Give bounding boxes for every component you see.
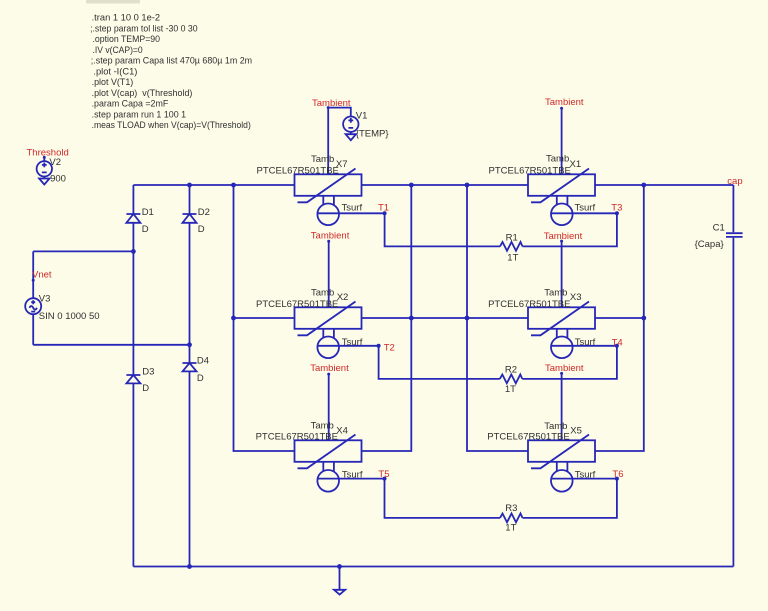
wire middle column x=411.3 down to X4.R: [362, 185, 412, 451]
junction mid column A row2: [409, 316, 414, 321]
net label Tambient (X4 branch): [310, 363, 349, 375]
svg-text:Tamb: Tamb: [546, 154, 569, 165]
wire Tambient to X3 Tamb: [561, 241, 563, 307]
wire Tambient to X1 Tamb: [561, 108, 563, 174]
thermistor X4: [256, 421, 363, 492]
svg-text:Tsurf: Tsurf: [575, 203, 596, 214]
svg-text:Vnet: Vnet: [32, 270, 52, 281]
svg-text:D: D: [198, 224, 205, 235]
svg-text:D: D: [142, 224, 149, 235]
svg-text:X5: X5: [570, 425, 582, 436]
net label Vnet: [32, 270, 52, 282]
svg-text:Tsurf: Tsurf: [575, 469, 596, 480]
svg-text:X3: X3: [570, 292, 582, 303]
wire row2 X2.R to X3.L: [362, 317, 529, 319]
node T4 corner dot: [615, 344, 619, 348]
thermistor X2: [256, 288, 363, 359]
wire net T1 (X7 Tsurf to R1): [317, 213, 500, 246]
svg-text:{Capa}: {Capa}: [695, 239, 724, 250]
junction mid column A top row: [409, 183, 414, 188]
svg-text:C1: C1: [713, 222, 725, 233]
wire left column x=233.5 down to X4.L: [234, 185, 295, 451]
voltage source V3 (sine): [25, 294, 99, 322]
faint cropped text at top edge: [86, 0, 140, 4]
voltage source V2: [37, 157, 66, 185]
svg-text:.plot -I(C1): .plot -I(C1): [93, 66, 137, 77]
diode D3: [126, 367, 154, 395]
wire right column to C1 top: [732, 185, 734, 232]
wire right column x=643.8 down to X5.R: [595, 185, 644, 451]
ground (V2): [39, 177, 49, 185]
svg-text:D2: D2: [198, 207, 210, 218]
wire net T4 (R2 to X3 Tsurf): [522, 346, 617, 379]
svg-text:.plot V(cap) v(Threshold): .plot V(cap) v(Threshold): [92, 88, 193, 99]
wire net T5 (X4 Tsurf to R3): [317, 479, 500, 518]
node T6 corner dot: [615, 477, 619, 481]
wire Vnet top (V3 to D1 column): [33, 250, 133, 252]
wire V3 return to D4 column: [33, 344, 189, 346]
node T3 corner dot: [615, 211, 619, 215]
wire top row left segment (bridge+ to X7.L): [133, 184, 294, 186]
wire D1 to D3: [132, 223, 134, 375]
wire V3 top lead: [32, 251, 34, 298]
svg-text:V1: V1: [356, 111, 368, 122]
wire C1 bottom to bottom row: [732, 238, 734, 567]
svg-text:Tamb: Tamb: [311, 288, 334, 299]
wire Tambient to X5 Tamb: [561, 373, 563, 440]
capacitor C1: [695, 222, 743, 250]
svg-text:Tambient: Tambient: [312, 98, 351, 109]
wire top row mid segment (X7.R to X1.L): [362, 184, 529, 186]
junction X3.R row2: [641, 316, 646, 321]
svg-text:PTCEL67R501TBE: PTCEL67R501TBE: [488, 299, 570, 310]
junction mid column B row2: [465, 316, 470, 321]
svg-text:D1: D1: [142, 207, 154, 218]
svg-text:Tambient: Tambient: [310, 363, 349, 374]
svg-text:900: 900: [50, 173, 66, 184]
svg-text:1T: 1T: [507, 252, 518, 263]
junction mid column B top row: [465, 183, 470, 188]
junction D2 top row: [187, 183, 192, 188]
svg-text:PTCEL67R501TBE: PTCEL67R501TBE: [489, 165, 571, 176]
svg-text:.option TEMP=90: .option TEMP=90: [93, 34, 161, 45]
wire D2 down to V3 return: [189, 223, 191, 363]
net label T6: [612, 469, 623, 480]
svg-text:;.step param Capa list 470µ 68: ;.step param Capa list 470µ 680µ 1m 2m: [91, 56, 252, 67]
svg-text:Tambient: Tambient: [311, 231, 350, 242]
net label Tambient (top right): [545, 97, 584, 110]
svg-text:.IV v(CAP)=0: .IV v(CAP)=0: [93, 45, 143, 56]
net label T1: [378, 203, 389, 215]
svg-text:T2: T2: [384, 342, 395, 353]
svg-text:1T: 1T: [505, 523, 516, 534]
wire net T6 (R3 to X5 Tsurf): [523, 479, 617, 518]
junction bridge+ top row: [231, 183, 236, 188]
svg-text:cap: cap: [727, 176, 742, 187]
spice directives text block: [90, 13, 252, 132]
svg-text:Tsurf: Tsurf: [342, 337, 363, 348]
diode D2: [183, 207, 210, 235]
thermistor X3: [488, 288, 596, 359]
wire D1 column top: [132, 185, 134, 214]
svg-text:PTCEL67R501TBE: PTCEL67R501TBE: [257, 165, 339, 176]
svg-text:X4: X4: [336, 425, 348, 436]
svg-text:X1: X1: [570, 159, 582, 170]
wire Tambient to X4 Tamb: [328, 374, 330, 440]
junction Vnet D1 column: [131, 249, 136, 254]
node T2 corner dot: [377, 344, 381, 348]
svg-text:V3: V3: [39, 294, 51, 305]
net label Tambient (V1): [312, 98, 351, 109]
svg-text:{TEMP}: {TEMP}: [356, 128, 389, 139]
svg-text:Threshold: Threshold: [27, 148, 69, 159]
svg-text:Tamb: Tamb: [311, 421, 334, 432]
junction ground bottom row: [337, 564, 342, 569]
net label T4: [612, 337, 623, 348]
svg-text:Tsurf: Tsurf: [342, 469, 363, 480]
svg-text:Tambient: Tambient: [544, 231, 583, 242]
wire Tambient to X2 Tamb: [328, 241, 330, 307]
voltage source V1: [343, 111, 388, 140]
resistor R1: [500, 233, 523, 264]
svg-text:1T: 1T: [505, 384, 516, 395]
net label Threshold: [27, 148, 69, 159]
svg-text:D3: D3: [142, 367, 154, 378]
svg-text:.plot V(T1): .plot V(T1): [92, 77, 134, 88]
wire bottom row: [133, 566, 733, 568]
svg-text:Tamb: Tamb: [544, 288, 567, 299]
net label Tambient (X2 branch): [311, 231, 350, 243]
wire top row right segment (X1.R to cap corner): [595, 184, 733, 186]
junction X2.L row2: [231, 316, 236, 321]
svg-text:Tamb: Tamb: [311, 154, 334, 165]
net label cap: [727, 176, 742, 187]
resistor R2: [500, 364, 523, 394]
resistor R3: [500, 503, 523, 533]
wire V3 bottom lead: [32, 314, 34, 345]
junction X1.R column top row: [641, 183, 646, 188]
svg-text:.param Capa =2mF: .param Capa =2mF: [92, 99, 169, 110]
wire D4 to bottom row: [189, 371, 191, 566]
svg-text:.step param run 1 100 1: .step param run 1 100 1: [92, 109, 187, 120]
node T1 corner dot: [383, 211, 387, 215]
svg-text:PTCEL67R501TBE: PTCEL67R501TBE: [487, 431, 569, 442]
ground (V1): [346, 132, 356, 140]
net label Tambient (X5 branch): [545, 363, 584, 375]
ground (main): [334, 567, 345, 595]
svg-text:Tambient: Tambient: [545, 97, 584, 108]
svg-text:Tsurf: Tsurf: [575, 337, 596, 348]
svg-text:Tsurf: Tsurf: [342, 203, 363, 214]
wire net T3 (R1 to X1 Tsurf): [523, 213, 617, 246]
svg-text:;.step param tol list -30 0 30: ;.step param tol list -30 0 30: [90, 23, 198, 34]
thermistor X5: [487, 421, 595, 492]
thermistor X7: [257, 154, 363, 225]
wire X2.L stub: [234, 317, 295, 319]
svg-text:D: D: [142, 383, 149, 394]
svg-text:D: D: [197, 373, 204, 384]
wire D3 to bottom row: [132, 383, 134, 566]
svg-text:SIN 0 1000 50: SIN 0 1000 50: [39, 311, 100, 322]
svg-text:.meas TLOAD when V(cap)=V(Thre: .meas TLOAD when V(cap)=V(Threshold): [92, 120, 251, 131]
net label T3: [611, 203, 622, 215]
net label Tambient (X3 branch): [544, 231, 583, 243]
wire middle column x=467 down to X5.L: [467, 185, 528, 451]
wire Tambient V1 corner to X7 Tamb: [328, 108, 351, 175]
node T5 corner dot: [383, 477, 387, 481]
net label T5: [378, 469, 389, 480]
svg-text:D4: D4: [197, 356, 209, 367]
diode D1: [126, 207, 153, 235]
svg-text:R2: R2: [505, 364, 517, 375]
svg-text:X2: X2: [337, 292, 349, 303]
svg-text:Tamb: Tamb: [544, 421, 567, 432]
wire D2 column top: [189, 185, 191, 214]
net label T2: [377, 342, 395, 353]
svg-text:Tambient: Tambient: [545, 363, 584, 374]
svg-text:R1: R1: [506, 233, 518, 244]
svg-text:PTCEL67R501TBE: PTCEL67R501TBE: [256, 299, 338, 310]
wire net T2 (X2 Tsurf to R2): [318, 346, 500, 379]
junction V3 return D4 column: [187, 342, 192, 347]
junction D4 bottom row: [187, 564, 192, 569]
wire row2 X3.R stub: [595, 317, 644, 319]
svg-text:PTCEL67R501TBE: PTCEL67R501TBE: [256, 431, 338, 442]
diode D4: [183, 356, 210, 385]
svg-text:T1: T1: [378, 203, 389, 214]
thermistor X1: [489, 154, 596, 226]
svg-text:R3: R3: [505, 503, 517, 514]
svg-text:.tran 1 10 0 1e-2: .tran 1 10 0 1e-2: [92, 13, 161, 24]
